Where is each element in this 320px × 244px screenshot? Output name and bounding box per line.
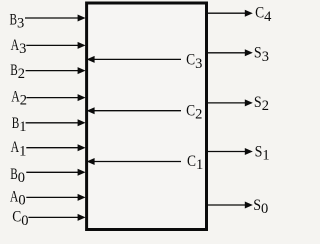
4-bit full adder block U1 <box>87 3 207 230</box>
wire B0 input <box>26 169 85 176</box>
wire S0 sum output <box>207 202 253 209</box>
wire B1 input <box>26 119 86 126</box>
wire S1 sum output <box>207 148 253 155</box>
wire C1 internal carry <box>87 158 181 165</box>
wire C0 carry-in input <box>28 214 85 221</box>
wire A1 input <box>26 144 85 151</box>
wire S3 sum output <box>207 49 253 56</box>
wire B2 input <box>26 67 86 74</box>
wire B3 input <box>25 15 86 22</box>
wire C2 internal carry <box>87 107 181 114</box>
wire A0 input <box>26 194 85 201</box>
wire S2 sum output <box>207 99 253 106</box>
wire A2 input <box>26 94 85 101</box>
wire C3 internal carry <box>87 56 181 63</box>
wire C4 carry-out output <box>207 10 253 17</box>
wire A3 input <box>26 42 85 49</box>
